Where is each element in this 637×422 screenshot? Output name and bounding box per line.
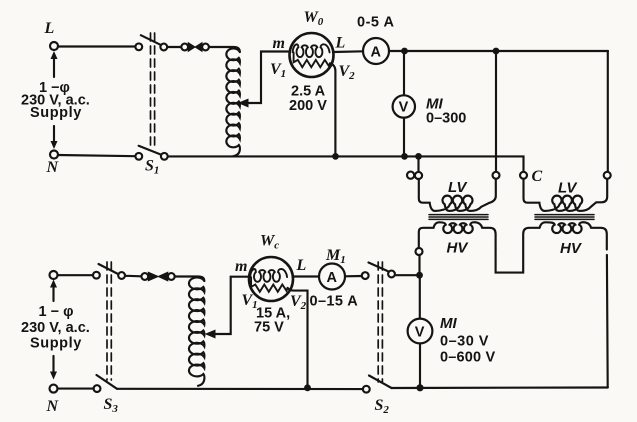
svg-text:V: V <box>399 100 409 116</box>
transformer T1 LV winding <box>419 179 496 211</box>
svg-text:LV: LV <box>558 180 578 197</box>
voltmeter V2 <box>408 315 496 366</box>
wire junction down to voltmeter V1 <box>403 51 405 96</box>
svg-text:N: N <box>46 398 60 415</box>
supply 2 terminal N <box>46 385 60 415</box>
HV series link (T1 to T2) <box>496 228 540 273</box>
svg-text:L: L <box>335 35 346 52</box>
wire voltmeter V2 to bottom bus <box>416 344 423 392</box>
supply terminal L <box>44 20 59 50</box>
svg-text:MI: MI <box>440 315 457 332</box>
switch S1 <box>135 33 167 177</box>
svg-text:200 V: 200 V <box>289 98 327 114</box>
switch S3 <box>93 262 125 415</box>
variac 1 coil <box>226 48 240 156</box>
svg-text:HV: HV <box>447 240 470 257</box>
bottom bus of top circuit <box>58 155 524 172</box>
svg-text:75 V: 75 V <box>254 320 284 336</box>
wire fuse F1 to variac 1 <box>209 47 240 52</box>
svg-text:0–600 V: 0–600 V <box>440 350 496 366</box>
wire ammeter to top right corner <box>389 50 608 52</box>
transformer T1 HV winding <box>419 222 496 256</box>
svg-text:230 V, a.c.: 230 V, a.c. <box>21 320 90 336</box>
svg-text:0-5 A: 0-5 A <box>357 15 394 31</box>
switch S2 <box>362 262 395 416</box>
bottom bus wires <box>58 388 608 390</box>
svg-text:m: m <box>235 258 247 275</box>
wire W0 L to ammeter A1 <box>334 50 364 53</box>
wire supply2 to S3 <box>58 274 94 276</box>
svg-text:1 − φ: 1 − φ <box>39 304 74 320</box>
wire W0 V2 drop to bus <box>330 63 339 159</box>
svg-text:A: A <box>371 45 382 61</box>
ammeter A1 <box>357 15 394 65</box>
wire top junction down to T1 LV-right terminal <box>493 51 500 179</box>
wire voltmeter V1 to bus <box>401 118 408 160</box>
svg-text:m: m <box>273 35 285 52</box>
svg-text:Supply: Supply <box>30 336 82 352</box>
wattmeter Wc <box>235 233 307 336</box>
svg-text:0–30 V: 0–30 V <box>440 334 489 350</box>
wire S3 to fuse F2 <box>125 275 141 278</box>
voltmeter V1 <box>393 95 467 126</box>
transformer T2 core <box>535 215 594 220</box>
variac 2 coil <box>189 277 204 385</box>
svg-text:L: L <box>296 257 307 274</box>
C terminal of T2 <box>520 168 543 185</box>
wire Wc V2 to bottom bus <box>288 288 311 391</box>
T1 LV-left terminals (plug pair) <box>407 156 422 179</box>
junction node at HV left <box>416 272 423 279</box>
svg-text:L: L <box>44 20 55 37</box>
supply 2 top terminal <box>50 271 58 279</box>
wire S1 to fuse F1 <box>167 46 181 48</box>
fuse F1 <box>181 43 209 52</box>
svg-text:V: V <box>415 325 425 341</box>
wire T1 HV-left terminal to S2 junction <box>418 255 420 273</box>
svg-text:LV: LV <box>448 179 468 196</box>
transformer T1 core <box>429 215 488 220</box>
wattmeter W0 <box>270 9 355 114</box>
wire S2 to HV junction <box>395 274 419 276</box>
variac 1 wiper wire to W0 m <box>239 49 294 106</box>
svg-text:0–300: 0–300 <box>426 111 466 127</box>
svg-text:C: C <box>532 168 543 185</box>
svg-text:N: N <box>46 159 60 176</box>
wire Wc L to ammeter A2 <box>293 275 319 277</box>
wire A2 to S2 <box>345 275 362 277</box>
transformer T2 LV winding <box>524 179 608 211</box>
supply 2 annotation <box>21 280 90 380</box>
transformer T2 HV winding <box>540 222 607 257</box>
wire fuse F2 to variac 2 <box>175 277 205 282</box>
svg-text:0–15 A: 0–15 A <box>310 294 359 310</box>
supply 1 annotation <box>21 51 90 149</box>
T2 LV-right terminal and wire up to top wire corner <box>604 51 611 179</box>
ammeter A2 <box>310 247 359 310</box>
T2 HV-right drop to bottom bus (with print gap) <box>606 255 609 388</box>
wire junction down to voltmeter V2 <box>419 275 421 318</box>
svg-text:A: A <box>327 270 338 286</box>
junction node top wire x496 <box>493 48 500 55</box>
wire L to S1 <box>58 45 135 47</box>
svg-text:Supply: Supply <box>30 105 82 121</box>
fuse F2 <box>141 272 174 281</box>
T1 HV-left terminal <box>416 248 423 255</box>
node: bus to T1 LV-left drop <box>415 153 422 160</box>
supply terminal N (top circuit) <box>46 151 60 177</box>
svg-text:HV: HV <box>560 240 583 257</box>
variac 2 wiper wire to Wc m <box>206 274 253 338</box>
junction node after A1 <box>401 48 408 55</box>
